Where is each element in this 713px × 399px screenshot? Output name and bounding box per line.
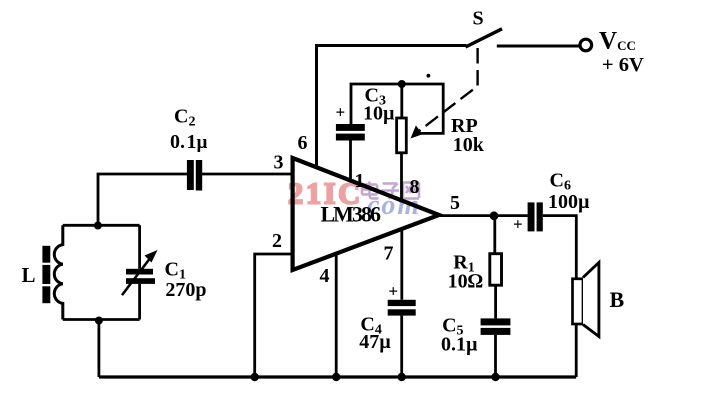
svg-text:270p: 270p (165, 279, 206, 301)
svg-text:8: 8 (410, 176, 420, 198)
svg-text:6: 6 (298, 132, 308, 154)
svg-text:0.1µ: 0.1µ (441, 334, 478, 356)
svg-text:100µ: 100µ (548, 191, 590, 213)
svg-text:+: + (513, 215, 523, 234)
svg-text:+: + (336, 103, 346, 122)
svg-text:3: 3 (274, 152, 284, 174)
svg-text:10Ω: 10Ω (448, 271, 483, 293)
svg-text:47µ: 47µ (359, 331, 391, 353)
svg-text:B: B (610, 287, 625, 312)
svg-text:5: 5 (450, 192, 460, 214)
svg-text:S: S (473, 8, 484, 30)
svg-text:L: L (22, 263, 36, 287)
svg-text:+ 6V: + 6V (602, 54, 644, 76)
svg-text:10µ: 10µ (363, 103, 395, 125)
svg-text:1: 1 (355, 170, 365, 192)
svg-text:LM386: LM386 (321, 202, 381, 227)
svg-text:+: + (388, 282, 398, 301)
svg-text:7: 7 (384, 243, 394, 265)
svg-text:2: 2 (272, 230, 282, 252)
svg-text:4: 4 (320, 265, 330, 287)
svg-text:0.1µ: 0.1µ (170, 131, 208, 153)
svg-text:10k: 10k (453, 134, 485, 156)
